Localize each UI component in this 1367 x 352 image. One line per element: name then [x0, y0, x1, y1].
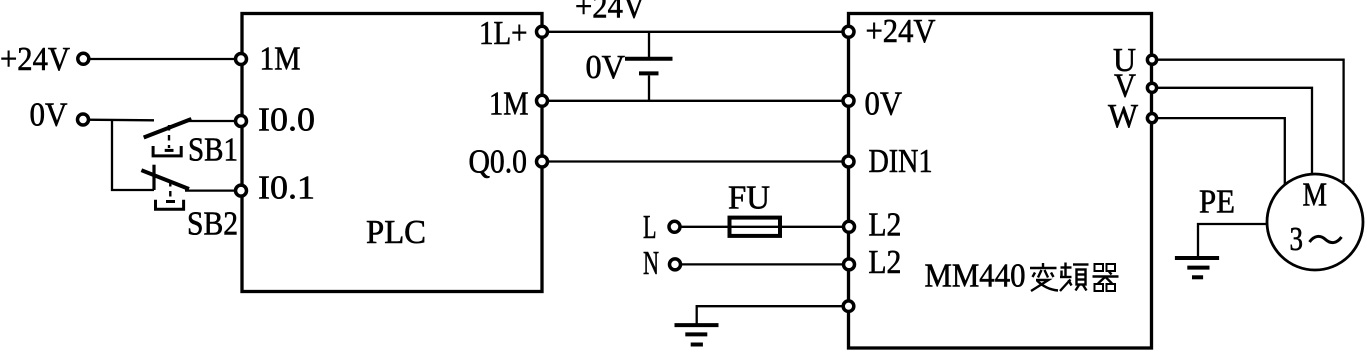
svg-text:0V: 0V — [865, 86, 903, 123]
svg-text:0V: 0V — [30, 97, 68, 134]
svg-text:W: W — [1108, 98, 1139, 135]
svg-text:FU: FU — [728, 180, 770, 217]
svg-text:L2: L2 — [868, 207, 901, 244]
svg-text:3: 3 — [1290, 221, 1304, 258]
svg-text:0V: 0V — [586, 49, 626, 86]
svg-text:1M: 1M — [489, 86, 529, 123]
svg-text:1M: 1M — [260, 41, 301, 78]
svg-text:+24V: +24V — [575, 0, 645, 26]
svg-text:1L+: 1L+ — [479, 15, 528, 52]
svg-text:L: L — [643, 209, 657, 246]
svg-text:MM440: MM440 — [925, 258, 1026, 295]
svg-text:M: M — [1303, 177, 1328, 214]
svg-text:I0.1: I0.1 — [258, 170, 315, 207]
svg-text:I0.0: I0.0 — [258, 102, 315, 139]
svg-text:DIN1: DIN1 — [869, 143, 933, 180]
svg-text:PE: PE — [1199, 184, 1235, 221]
svg-text:+24V: +24V — [0, 41, 70, 78]
svg-text:Q0.0: Q0.0 — [469, 144, 528, 181]
svg-text:PLC: PLC — [366, 214, 426, 251]
svg-text:SB1: SB1 — [188, 132, 238, 169]
svg-text:+24V: +24V — [866, 13, 936, 50]
svg-text:N: N — [643, 245, 659, 282]
svg-text:SB2: SB2 — [187, 206, 238, 243]
svg-text:L2: L2 — [868, 244, 901, 281]
